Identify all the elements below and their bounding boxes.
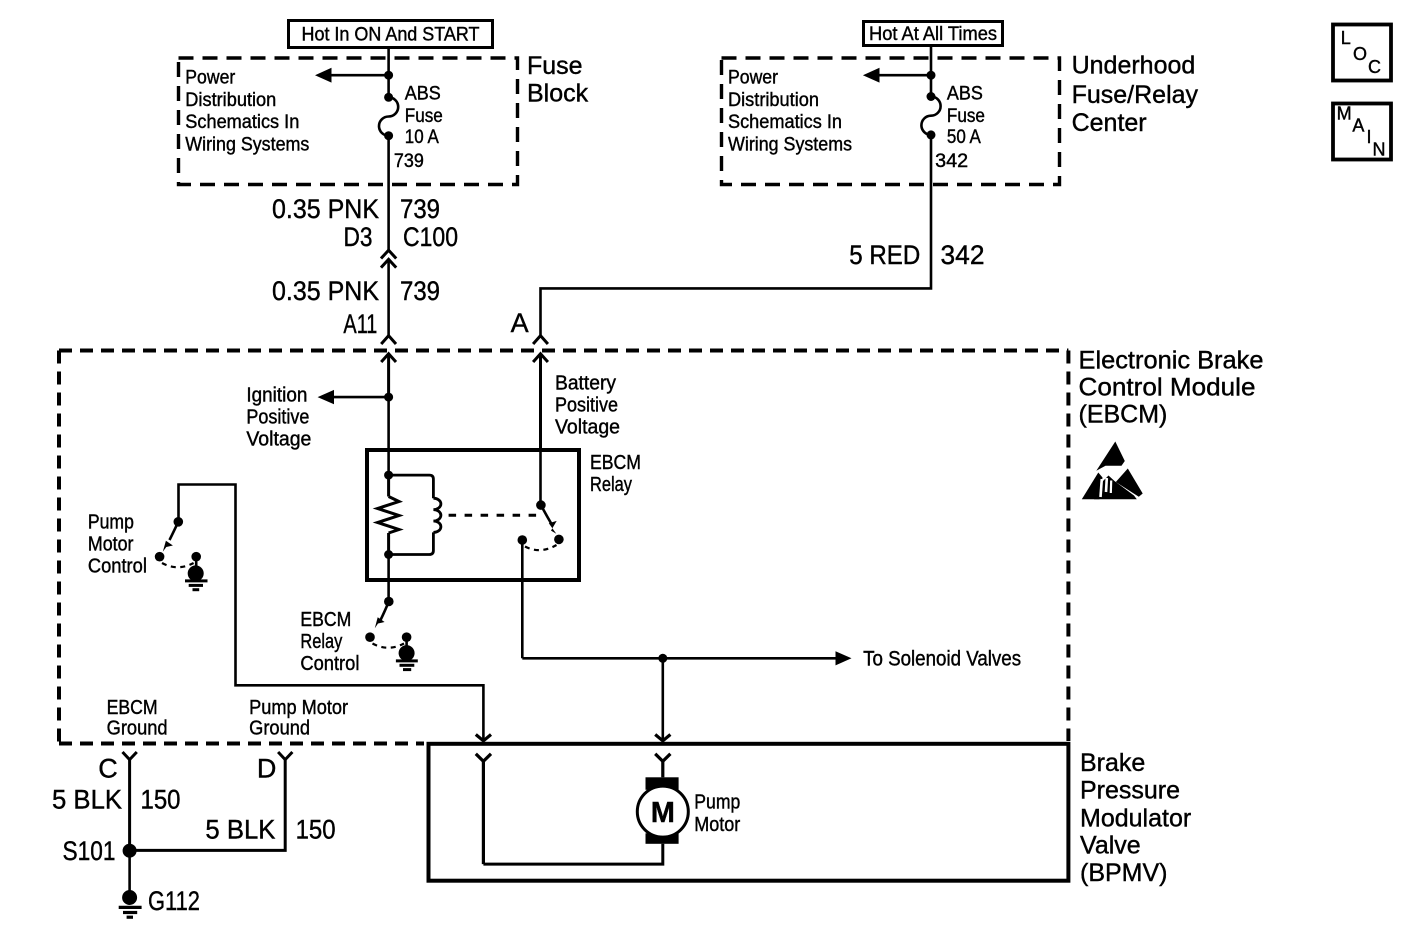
node dot coil top <box>384 471 393 480</box>
wire battery feed to relay switch <box>539 448 542 505</box>
svg-text:0.35 PNK: 0.35 PNK <box>272 276 379 306</box>
svg-text:A: A <box>511 308 529 338</box>
svg-text:N: N <box>1373 139 1386 159</box>
svg-text:342: 342 <box>941 240 985 270</box>
label Brake Pressure Modulator Valve (BPMV) <box>1080 749 1191 887</box>
svg-text:D3: D3 <box>344 222 373 252</box>
svg-text:Electronic Brake: Electronic Brake <box>1079 346 1264 374</box>
fuse block dashed box <box>179 58 518 185</box>
wire C100 to EBCM connector A11 <box>387 259 390 335</box>
label EBCM Ground <box>107 697 168 740</box>
svg-text:Wiring Systems: Wiring Systems <box>728 135 852 156</box>
svg-text:Control: Control <box>88 555 147 577</box>
wire EBCM relay control from coil <box>387 555 390 602</box>
connector arrow into BPMV (pump ground) <box>476 735 491 741</box>
svg-text:Power: Power <box>185 67 236 88</box>
connector half (female) EBCM pin C <box>123 752 137 851</box>
EBCM relay control throw dashed arc <box>373 644 405 648</box>
note Power Distribution Schematics In Wiring Systems (right) <box>728 67 852 155</box>
connector half (female) BPMV pump ground <box>476 754 491 864</box>
node dot ignition tap <box>384 393 393 402</box>
value label ABS Fuse 50 A <box>947 83 985 148</box>
ground G112 symbol <box>119 890 142 917</box>
LOC reference box <box>1333 25 1391 81</box>
label Battery Positive Voltage <box>555 372 620 438</box>
underhood fuse center dashed box <box>722 58 1060 185</box>
svg-text:O: O <box>1353 44 1367 64</box>
svg-text:0.35 PNK: 0.35 PNK <box>272 194 379 224</box>
svg-text:50 A: 50 A <box>947 127 981 148</box>
svg-text:Wiring Systems: Wiring Systems <box>185 135 309 156</box>
svg-text:Center: Center <box>1072 109 1147 137</box>
svg-text:739: 739 <box>400 276 440 306</box>
svg-text:M: M <box>651 797 675 829</box>
svg-text:Motor: Motor <box>694 814 740 836</box>
label Ignition Positive Voltage <box>246 385 311 451</box>
wire fuse to connector C100 <box>387 136 390 251</box>
arrow To Solenoid Valves <box>522 651 851 665</box>
arrow to power distribution (right box) <box>863 68 931 83</box>
BPMV module box <box>429 744 1069 881</box>
svg-text:A: A <box>1352 115 1364 135</box>
label Electronic Brake Control Module (EBCM) <box>1079 346 1264 428</box>
pin labels D3 / C100 <box>344 222 459 252</box>
inductor coil element of relay <box>389 475 441 554</box>
svg-text:739: 739 <box>394 151 424 172</box>
svg-text:C: C <box>98 754 118 784</box>
svg-text:EBCM: EBCM <box>107 697 158 719</box>
svg-text:Control Module: Control Module <box>1079 373 1256 401</box>
svg-text:ABS: ABS <box>405 83 441 104</box>
svg-text:Pump: Pump <box>694 791 740 813</box>
svg-text:Control: Control <box>300 653 359 675</box>
svg-text:Schematics In: Schematics In <box>185 112 299 133</box>
fuse ABS 10A symbol <box>379 93 398 140</box>
svg-text:G112: G112 <box>148 886 200 916</box>
svg-text:C100: C100 <box>403 222 458 252</box>
wire from Hot At All Times box down <box>930 47 933 97</box>
connector half (female) at EBCM pin A <box>533 336 548 344</box>
svg-text:Pressure: Pressure <box>1080 777 1180 805</box>
header box Hot At All Times <box>864 22 1003 46</box>
svg-text:Battery: Battery <box>555 372 616 394</box>
svg-text:Voltage: Voltage <box>246 429 311 451</box>
svg-text:10 A: 10 A <box>405 127 439 148</box>
node junction dot at right arrow tap <box>927 71 936 80</box>
svg-text:Hot In ON And START: Hot In ON And START <box>302 25 480 46</box>
wire coil feed inside relay <box>387 448 390 475</box>
node junction dot pump motor feed <box>658 654 667 663</box>
svg-text:150: 150 <box>296 815 336 845</box>
EBCM relay control switch arm with arrow <box>375 602 389 629</box>
svg-text:Pump: Pump <box>88 511 134 533</box>
wire label 0.35 PNK 739 (below C100) <box>272 276 440 306</box>
svg-text:D: D <box>257 754 277 784</box>
svg-text:Ground: Ground <box>107 717 168 739</box>
label Fuse Block <box>527 52 589 108</box>
svg-text:Hot At All Times: Hot At All Times <box>869 24 997 45</box>
ESD sensitivity symbol <box>1082 442 1143 500</box>
svg-text:Modulator: Modulator <box>1080 805 1191 833</box>
svg-text:Relay: Relay <box>300 631 342 653</box>
svg-text:I: I <box>1367 127 1372 147</box>
svg-text:Fuse/Relay: Fuse/Relay <box>1072 81 1199 109</box>
label Pump Motor Ground <box>249 697 348 740</box>
relay K1 EBCM Relay box <box>367 450 579 580</box>
node junction dot at arrow tap <box>384 71 393 80</box>
svg-text:(BPMV): (BPMV) <box>1080 859 1168 887</box>
svg-text:Voltage: Voltage <box>555 416 620 438</box>
svg-text:Ground: Ground <box>249 717 310 739</box>
svg-text:Underhood: Underhood <box>1072 51 1196 79</box>
svg-text:L: L <box>1341 28 1351 48</box>
svg-text:Schematics In: Schematics In <box>728 112 842 133</box>
header box Hot In ON And START <box>289 21 493 48</box>
svg-text:ABS: ABS <box>947 83 983 104</box>
wire relay output down to solenoid feed <box>521 540 524 658</box>
wire from Hot In box down into fuse block <box>387 49 390 97</box>
label EBCM Relay <box>590 452 641 496</box>
connector C100 inline symbol <box>381 250 396 267</box>
svg-text:Distribution: Distribution <box>185 90 276 111</box>
svg-text:A11: A11 <box>343 309 377 339</box>
wire ignition feed into relay <box>387 397 390 448</box>
label Underhood Fuse/Relay Center <box>1072 51 1199 137</box>
relay switch common dot <box>536 500 546 510</box>
MAIN reference box <box>1333 104 1391 160</box>
relay actuation dashed link <box>449 514 537 517</box>
internal ground at EBCM relay control <box>396 637 418 669</box>
svg-text:Block: Block <box>527 80 589 108</box>
connector half (female) BPMV motor feed <box>655 754 670 778</box>
label Pump Motor Control <box>88 511 147 577</box>
svg-text:Ignition: Ignition <box>246 385 307 407</box>
connector arrow into BPMV (motor feed) <box>655 735 670 741</box>
splice S101 <box>123 844 137 858</box>
svg-text:Fuse: Fuse <box>947 106 985 127</box>
resistor element of relay coil <box>378 475 400 554</box>
wire pump motor control riser <box>179 485 484 741</box>
svg-text:M: M <box>1337 104 1352 124</box>
svg-text:C: C <box>1368 57 1381 77</box>
svg-text:5 BLK: 5 BLK <box>52 785 122 815</box>
pump motor control throw dashed arc <box>162 563 194 567</box>
relay switch contact dots <box>518 535 564 545</box>
fuse ABS 50A symbol <box>921 92 940 139</box>
svg-text:Pump Motor: Pump Motor <box>249 697 348 719</box>
svg-text:Positive: Positive <box>246 407 309 429</box>
node dot coil bottom <box>384 550 393 559</box>
relay switch arm with arrow <box>541 505 557 534</box>
svg-text:5 BLK: 5 BLK <box>205 815 275 845</box>
svg-text:5 RED: 5 RED <box>849 240 920 270</box>
pump motor control switch pivot dot <box>174 517 184 527</box>
internal ground at pump motor control <box>185 557 208 590</box>
label Pump Motor (at motor) <box>694 791 740 836</box>
label EBCM Relay Control <box>300 609 359 675</box>
wire label 5 BLK 150 (pump motor ground) <box>205 815 335 845</box>
svg-text:Motor: Motor <box>88 533 134 555</box>
svg-text:Fuse: Fuse <box>405 106 443 127</box>
svg-text:Relay: Relay <box>590 474 632 496</box>
value label ABS Fuse 10 A <box>405 83 443 148</box>
EBCM relay control switch pivot dot <box>384 597 394 607</box>
connector half (male arrow) below boundary pin A <box>533 354 548 448</box>
pump motor control contact dots <box>155 552 201 562</box>
wire label 0.35 PNK 739 (above C100) <box>272 194 440 224</box>
wire label 5 RED 342 <box>849 240 984 270</box>
svg-text:342: 342 <box>935 151 968 172</box>
svg-text:(EBCM): (EBCM) <box>1079 400 1168 428</box>
svg-text:739: 739 <box>400 194 440 224</box>
svg-text:To Solenoid Valves: To Solenoid Valves <box>863 647 1021 670</box>
wire label 5 BLK 150 (EBCM ground) <box>52 785 181 815</box>
svg-text:Distribution: Distribution <box>728 90 819 111</box>
wire splice to ground G112 <box>128 851 131 892</box>
connector half (female) EBCM pin D <box>135 752 292 850</box>
wire pump ground to motor return <box>483 844 662 864</box>
arrow to power distribution (left box) <box>315 68 389 83</box>
svg-text:Fuse: Fuse <box>527 52 583 80</box>
svg-text:EBCM: EBCM <box>590 452 641 474</box>
EBCM module dashed box <box>59 351 1068 744</box>
connector half (female) at EBCM pin A11 <box>381 336 396 344</box>
svg-text:Valve: Valve <box>1080 832 1141 860</box>
svg-text:Positive: Positive <box>555 394 618 416</box>
svg-text:S101: S101 <box>63 836 116 866</box>
relay switch throw dashed arc <box>525 545 557 550</box>
svg-text:EBCM: EBCM <box>300 609 351 631</box>
svg-text:150: 150 <box>141 785 181 815</box>
note Power Distribution Schematics In Wiring Systems (left) <box>185 67 309 155</box>
pump motor control switch arm with arrow <box>163 522 179 552</box>
wire pump motor feed down to BPMV <box>661 658 664 741</box>
connector half (male arrow) below boundary pin A11 <box>381 354 396 397</box>
svg-text:Brake: Brake <box>1080 749 1145 777</box>
wire 5 RED from fuse down and across to EBCM pin A <box>541 135 932 336</box>
svg-text:Power: Power <box>728 67 779 88</box>
arrow Ignition Positive Voltage <box>318 390 389 404</box>
EBCM relay control contact dots <box>365 632 411 642</box>
motor M1 pump motor <box>637 777 688 844</box>
